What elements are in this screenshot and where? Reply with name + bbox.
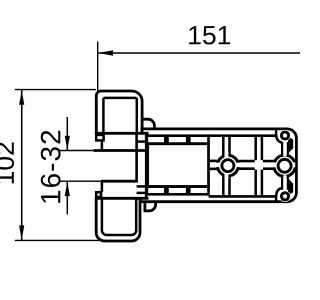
post lower tick 1 [137,185,147,188]
big boss inner hole [278,159,291,172]
horizontal rib bottom line left segment [239,167,255,170]
dimension 102 line [21,90,23,240]
middle boss down spoke right line [228,177,231,197]
dimension 102 text [0,143,14,184]
dimension 151 line [98,52,300,54]
post lower tick 2 [137,192,147,195]
post right line [145,133,148,198]
lower foot [96,192,101,197]
post left line [135,133,138,181]
bottom slot 3 [189,187,208,195]
horizontal rib top line left segment [239,160,255,163]
dimension 16-32 lower arrowhead [65,182,70,197]
extension line 102 bottom [15,239,99,241]
web around top small hole [276,130,282,143]
white spoke channel between bottom small hole and big boss [283,175,286,192]
extension line 16-32 upper [59,150,95,152]
white gap middle boss ring left [216,163,221,167]
dimension 151 arrowhead [98,50,113,55]
big boss bottom spoke lines [281,177,283,189]
top pocket above arm edge [142,119,154,129]
middle boss left spoke bottom line [210,168,217,171]
lower jaw top line [101,180,138,183]
middle boss up spoke right line [228,136,231,155]
vertical rib right line bottom segment [261,170,264,197]
upper U clamp inner profile [103,98,136,134]
middle boss left spoke top line [210,160,217,163]
upper jaw bottom line [94,149,147,152]
top slot 1 [147,136,165,144]
extension line for 151 [97,42,99,92]
web around bottom small hole [276,188,282,201]
middle boss outer ring [218,155,239,176]
upper jaw left vertical [101,140,104,150]
white gap middle boss ring bottom [225,174,229,179]
web fill right of bottom small hole [288,179,293,196]
white gap middle boss ring top [225,152,229,157]
dimension 102 arrowhead down [19,225,24,240]
middle boss down spoke left line [222,176,225,196]
top slot 3 [189,136,208,144]
horizontal rib top line right segment [263,160,276,163]
middle boss inner hole [222,160,234,172]
cells top line [209,134,276,137]
white gap middle boss ring right [236,163,241,167]
vertical rib left line bottom segment [254,170,257,197]
web fill right of top small hole [288,137,293,154]
white annulus restore top small hole [279,130,290,141]
cells bottom line [209,195,276,198]
bottom small hole [281,193,288,200]
big boss top spoke lines [281,142,283,154]
big boss outer ring [274,155,295,176]
dimension 151 text [189,26,230,44]
lower jaw bottom line [95,197,149,200]
dimension 16-32 lower line [66,182,68,214]
white spoke channel between top small hole and big boss [283,140,286,157]
central rectangular cutout [148,144,209,187]
bottom pocket below arm edge [145,202,156,211]
white annulus restore bottom small hole [279,191,290,202]
lower U clamp outer profile [96,198,140,241]
white gap big boss ring left [271,162,276,167]
dimension 16-32 upper line [66,117,68,150]
upper U clamp outer profile [96,91,142,134]
extension line 102 top [15,89,96,91]
vertical rib left line top segment [254,136,257,161]
bottom slot 2 [168,187,188,195]
extension line 16-32 lower [59,180,102,182]
white gap big boss ring right [292,162,295,167]
top slot 2 [168,136,188,144]
lower U clamp inner profile [102,198,136,235]
vertical rib right line top segment [261,136,264,161]
lower jaw left vertical [101,182,104,193]
upper jaw top line [95,132,149,135]
dimension 102 arrowhead up [19,90,24,105]
dimension 16-32 text [41,131,61,203]
dimension 16-32 upper arrowhead [65,136,70,151]
arm outline [140,129,296,202]
upper foot [96,135,103,141]
top small hole [281,132,288,139]
post upper tick [137,140,147,143]
bottom slot 1 [147,187,165,195]
middle boss up spoke left line [222,136,225,156]
horizontal rib bottom line right segment [263,167,276,170]
